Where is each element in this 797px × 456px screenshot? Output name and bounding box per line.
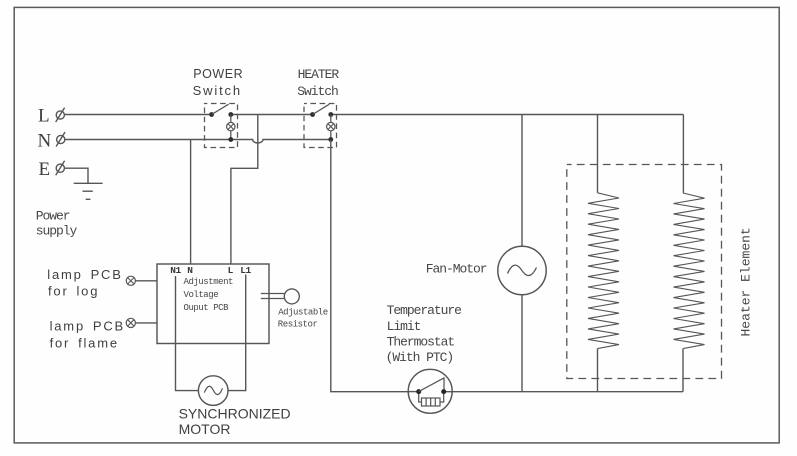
node HEATER lamp to N line	[328, 137, 333, 142]
wire L1 terminal down to motor right	[228, 275, 246, 391]
wire thermostat right to heater bottoms	[446, 391, 683, 393]
label SYNCHRONIZED MOTOR	[179, 405, 291, 437]
label Adjustment Voltage Ouput PCB	[184, 277, 234, 313]
wire L line left segment	[65, 114, 212, 116]
HEATER switch blade	[313, 104, 330, 114]
POWER switch blade	[212, 104, 229, 114]
label lamp PCB for flame	[50, 319, 125, 351]
svg-text:Heater Element: Heater Element	[739, 227, 754, 336]
wire L line end down to heater coil 2	[682, 115, 684, 194]
svg-text:for flame: for flame	[50, 335, 119, 350]
wire N line with hop over crossing	[65, 140, 331, 144]
svg-text:E: E	[39, 159, 51, 180]
label POWER Switch	[193, 67, 244, 98]
wire log terminal to PCB	[135, 280, 157, 282]
svg-text:HEATER: HEATER	[298, 67, 340, 82]
svg-text:for log: for log	[48, 284, 99, 299]
HEATER switch contact node left	[310, 112, 315, 117]
svg-text:MOTOR: MOTOR	[179, 421, 231, 437]
label Adjustable Resistor	[278, 308, 328, 330]
heater coil 1	[588, 193, 619, 349]
svg-text:Switch: Switch	[193, 83, 242, 98]
POWER switch contact node left	[209, 112, 214, 117]
thermostat PTC element	[422, 398, 441, 406]
wire L line middle segment	[231, 114, 313, 116]
svg-text:lamp PCB: lamp PCB	[47, 267, 122, 282]
svg-text:Switch: Switch	[297, 84, 338, 99]
adjustable resistor leads	[261, 294, 285, 299]
svg-text:POWER: POWER	[193, 67, 243, 81]
thermostat body	[408, 369, 452, 413]
lamp PCB for log terminal	[126, 276, 135, 285]
HEATER switch dashed enclosure	[304, 104, 337, 148]
svg-text:L1: L1	[240, 265, 251, 276]
wire N line branch down to PCB N terminal	[190, 140, 192, 265]
svg-text:Power: Power	[36, 209, 70, 224]
wire N1 terminal down to motor left	[176, 276, 199, 391]
lamp PCB for flame terminal	[126, 318, 135, 327]
wire flame terminal to PCB	[135, 322, 157, 324]
svg-text:L: L	[38, 106, 50, 127]
wire coil 1 down to bottom line	[597, 349, 599, 392]
thermostat contact node left	[416, 389, 421, 394]
svg-text:Resistor: Resistor	[278, 320, 318, 330]
POWER switch neon lamp	[227, 122, 235, 130]
svg-text:SYNCHRONIZED: SYNCHRONIZED	[179, 405, 291, 421]
svg-text:lamp PCB: lamp PCB	[50, 319, 125, 334]
svg-text:Ouput PCB: Ouput PCB	[184, 303, 230, 313]
wire switch to N junction	[230, 115, 232, 140]
thermostat blade	[419, 378, 444, 392]
PCB box Adjustment Voltage Ouput PCB	[157, 264, 269, 344]
ground	[74, 183, 103, 199]
fan motor M2	[498, 246, 546, 294]
thermostat PTC connectors	[419, 394, 444, 402]
terminal N phi symbol	[56, 132, 65, 146]
svg-text:L: L	[228, 265, 234, 276]
label Temperature Limit Thermostat (With PTC)	[386, 303, 462, 365]
svg-text:N1: N1	[170, 265, 181, 276]
svg-text:(With PTC): (With PTC)	[386, 350, 454, 365]
wire L branch jog down to PCB L terminal	[231, 115, 258, 265]
svg-text:Thermostat: Thermostat	[387, 334, 455, 349]
HEATER switch neon lamp	[327, 122, 335, 130]
HEATER switch contact node right	[328, 112, 333, 117]
POWER switch contact node right	[228, 112, 233, 117]
svg-text:Adjustable: Adjustable	[278, 308, 328, 318]
svg-text:Limit: Limit	[387, 319, 421, 334]
svg-text:supply: supply	[36, 224, 78, 239]
node POWER lamp to N line	[228, 137, 233, 142]
thermostat contact node right	[441, 389, 446, 394]
wire L line down to fan motor	[521, 115, 523, 247]
svg-text:Fan-Motor: Fan-Motor	[426, 262, 487, 277]
POWER switch dashed enclosure	[205, 104, 238, 148]
wire heater N branch down to thermostat	[331, 140, 408, 392]
svg-text:Temperature: Temperature	[387, 303, 462, 318]
synchronized motor M1	[198, 376, 228, 406]
svg-text:N: N	[187, 265, 193, 276]
heater element dashed enclosure	[567, 165, 722, 379]
label HEATER Switch	[297, 67, 339, 99]
svg-text:N: N	[38, 131, 52, 152]
terminal L phi symbol	[56, 108, 65, 122]
svg-text:Voltage: Voltage	[184, 290, 219, 300]
wire fan motor down to bottom line	[521, 295, 523, 392]
wire E to ground	[65, 168, 88, 183]
wire coil 2 down to bottom line	[682, 349, 684, 392]
heater coil 2	[674, 193, 705, 349]
terminal E phi symbol	[56, 161, 65, 175]
wire L line down to heater coil 1	[597, 115, 599, 193]
adjustable resistor R	[284, 289, 299, 304]
label Power supply	[36, 209, 78, 239]
wire into thermostat left	[408, 391, 416, 393]
label lamp PCB for log	[47, 267, 122, 299]
wire L line right segment	[331, 114, 684, 116]
svg-text:Adjustment: Adjustment	[184, 277, 234, 287]
wire heater switch to N end	[330, 115, 332, 140]
